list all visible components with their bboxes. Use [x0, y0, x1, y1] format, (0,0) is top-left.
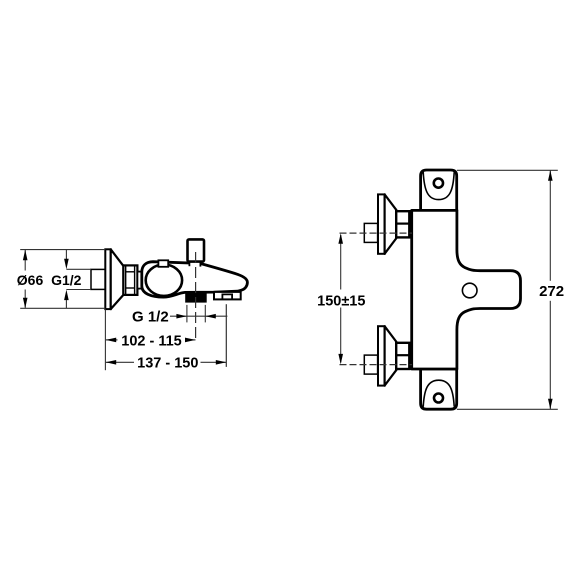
svg-text:272: 272	[539, 283, 564, 300]
dim 150±15 line and arrows	[338, 233, 343, 364]
dim 272 line and arrows	[548, 170, 553, 409]
wall pipe stub G1/2 (left view)	[91, 269, 105, 289]
cartridge screw circle (right view)	[462, 283, 477, 298]
top ear shield arc	[423, 172, 454, 200]
top mounting ear	[421, 170, 457, 211]
cartridge face circle (left view)	[146, 265, 182, 296]
dim G1/2 line and arrows (vertical)	[64, 250, 91, 309]
svg-text:G1/2: G1/2	[51, 272, 82, 288]
thermostatic bar body (right view)	[412, 210, 521, 369]
faucet body with spout (left view)	[142, 262, 248, 297]
diverter knob	[188, 239, 205, 261]
dim Ø66 extension lines	[20, 250, 105, 309]
bottom ear screw hole	[434, 394, 443, 403]
svg-text:137 - 150: 137 - 150	[137, 356, 198, 372]
bottom ear shield arc	[423, 380, 454, 407]
small notch on body top	[158, 260, 168, 267]
dim 102-115 line and arrows	[106, 338, 196, 343]
dim Ø66 line and arrows	[23, 250, 28, 309]
dim G 1/2 (shower outlet) line, arrows, extensions	[170, 305, 227, 323]
top inlet nut	[396, 211, 409, 237]
aerator centerline extension	[225, 304, 227, 367]
neck between nut and body	[137, 272, 142, 289]
top inlet cone	[385, 194, 397, 253]
bottom inlet nut	[396, 343, 409, 369]
bottom mounting ear	[421, 369, 457, 409]
svg-text:150±15: 150±15	[317, 294, 365, 310]
shower outlet (black, G 1/2)	[185, 292, 207, 303]
flange cone (left view)	[111, 249, 124, 309]
bottom inlet centerline	[340, 364, 413, 366]
dim 137-150 line and arrows	[106, 360, 227, 365]
bottom inlet flange rim	[378, 326, 385, 385]
top ear screw hole	[434, 179, 443, 188]
svg-text:102 - 115: 102 - 115	[121, 333, 181, 349]
diverter centerline (dashed)	[195, 252, 197, 341]
svg-text:G 1/2: G 1/2	[132, 309, 169, 326]
top inlet flange rim	[378, 194, 385, 253]
svg-text:Ø66: Ø66	[17, 272, 44, 288]
diverter stem	[189, 261, 200, 267]
aerator under spout	[214, 292, 241, 300]
dim 272 extension lines	[457, 170, 558, 409]
top inlet pipe stub	[364, 223, 377, 242]
wall flange escutcheon rim (left view)	[105, 249, 110, 309]
wall plane extension line	[104, 309, 106, 370]
top inlet centerline	[340, 232, 413, 234]
bottom inlet cone	[385, 326, 397, 385]
hex nut (left view)	[123, 265, 137, 295]
bottom inlet pipe stub	[364, 355, 377, 374]
